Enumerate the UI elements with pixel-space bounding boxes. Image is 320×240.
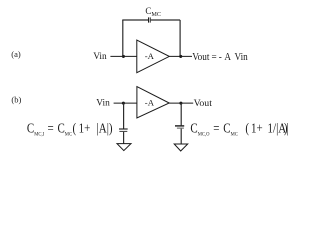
svg-text:-A: -A: [145, 51, 155, 61]
svg-text:(b): (b): [11, 95, 21, 105]
capacitor CMC,I plates: [119, 128, 128, 130]
svg-text:Vout=-AVin: Vout=-AVin: [192, 51, 248, 62]
ground symbol (output side): [174, 144, 188, 151]
op-amp U1 -A (a): [137, 40, 170, 73]
wire output node down to CMC,O: [180, 103, 182, 125]
wire CMC,O to ground: [180, 129, 182, 144]
svg-text:Vin: Vin: [93, 52, 107, 62]
svg-text:Vout: Vout: [194, 98, 213, 109]
wire feedback left vertical (a): [122, 20, 124, 56]
wire CMC,I to ground: [123, 132, 125, 144]
wire Vin to amp input (b): [114, 102, 137, 104]
svg-text:-A: -A: [145, 97, 155, 107]
wire feedback top right horizontal (a): [151, 19, 180, 21]
svg-text:(a): (a): [11, 49, 21, 59]
junction input node (b): [122, 102, 125, 105]
op-amp U2 -A (b): [137, 87, 169, 118]
junction input node (a): [122, 55, 125, 58]
svg-text:CMC: CMC: [145, 6, 161, 18]
capacitor CMC plates (a): [148, 17, 150, 22]
wire feedback top left horizontal (a): [122, 19, 148, 21]
svg-text:CMC,I=CMC(1+|A|): CMC,I=CMC(1+|A|): [27, 120, 113, 137]
wire input node down to CMC,I: [123, 103, 125, 128]
junction output node (a): [179, 55, 182, 58]
wire Vin to amp input (a): [110, 55, 136, 57]
wire amp output (a): [169, 55, 192, 57]
junction output node (b): [179, 102, 182, 105]
capacitor CMC,O plates: [175, 125, 184, 127]
svg-text:CMC,O=CMC(1+1/|A|): CMC,O=CMC(1+1/|A|): [190, 120, 288, 137]
wire feedback right vertical (a): [179, 20, 181, 56]
wire amp output (b): [169, 102, 193, 104]
svg-text:Vin: Vin: [96, 98, 110, 108]
ground symbol (input side): [117, 144, 131, 151]
